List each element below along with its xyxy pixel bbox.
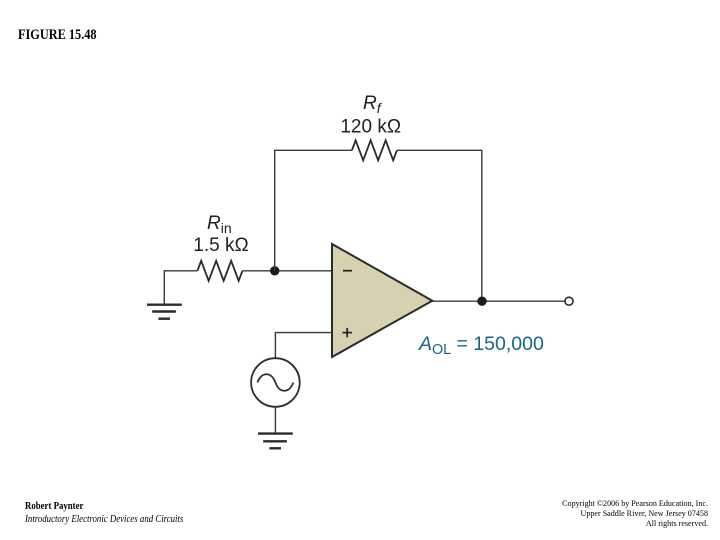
ground (input side) xyxy=(147,305,182,319)
resistor Rin zigzag xyxy=(197,261,242,281)
copyright bottom right xyxy=(423,498,708,528)
node junction dot (inverting input) xyxy=(270,266,279,275)
AC source VS circle xyxy=(251,358,300,407)
resistor Rf zigzag xyxy=(352,140,397,160)
open output terminal xyxy=(565,297,573,305)
svg-text:Rf: Rf xyxy=(363,93,383,116)
ground (source side) xyxy=(258,434,293,449)
title FIGURE 15.48 xyxy=(18,27,97,44)
svg-text:120 kΩ: 120 kΩ xyxy=(340,117,401,138)
wire: Rin right to inverting input xyxy=(242,270,332,272)
minus sign inside op-amp xyxy=(343,270,352,272)
wire: noninverting input to source xyxy=(275,333,332,359)
wire: Rf right then down to output node xyxy=(397,150,482,301)
sine wave inside source xyxy=(258,374,294,391)
credits bottom left xyxy=(25,500,183,526)
op-amp U1 triangle xyxy=(332,244,432,357)
wire: feedback left riser xyxy=(275,150,352,270)
svg-text:1.5 kΩ: 1.5 kΩ xyxy=(193,235,248,256)
wire: source to bottom ground xyxy=(274,407,276,435)
plus sign inside op-amp xyxy=(343,328,353,337)
wire: op-amp output xyxy=(432,300,565,302)
svg-text:AOL = 150,000: AOL = 150,000 xyxy=(418,333,544,358)
svg-text:Rin: Rin xyxy=(207,213,232,236)
node junction dot (output) xyxy=(477,297,486,306)
wire: input ground riser to Rin left xyxy=(164,271,197,306)
